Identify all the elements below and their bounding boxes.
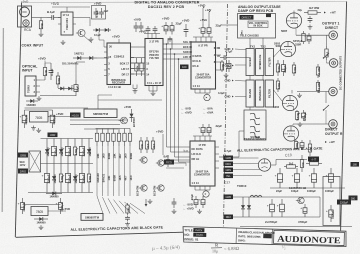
tube V2b bbox=[283, 126, 298, 141]
wire plate to jack3 bbox=[291, 90, 293, 93]
output transformer pictorial box bbox=[244, 110, 266, 140]
lt label DR2 bbox=[224, 215, 234, 220]
U4 top pin stubs bbox=[195, 37, 197, 42]
ground ch2 cathode bbox=[299, 122, 301, 124]
ground right cluster bbox=[90, 37, 92, 39]
psu component 1N4860 upper bbox=[88, 139, 90, 150]
wire plate to jack1 bbox=[293, 11, 295, 13]
bias resistor 10K cluster bbox=[140, 137, 142, 141]
ladder resistor 680R bbox=[107, 129, 109, 134]
ladder wire down bbox=[129, 146, 131, 196]
dark label H100 bbox=[70, 113, 81, 118]
I/V resistor left bbox=[221, 60, 223, 62]
wire vol box down to TX1 bbox=[249, 38, 251, 49]
lt cap 4700uF b bbox=[281, 199, 283, 204]
wires secondary to rectifier bbox=[233, 157, 259, 159]
supply caps above U5 bbox=[202, 124, 204, 127]
psu component 470R lower bbox=[60, 164, 62, 175]
ground under U1 bbox=[62, 40, 64, 42]
ground lower bbox=[127, 222, 129, 224]
anode resistor 2k2 WW ch1 bbox=[317, 64, 319, 67]
decoupling caps above U3 bbox=[147, 26, 149, 29]
transformer secondary label GRB ht bbox=[224, 156, 234, 161]
psu component 470R upper bbox=[74, 139, 76, 148]
ladder resistor 680R bbox=[129, 129, 131, 134]
pullup resistor 47K a bbox=[136, 58, 138, 63]
ladder wire down bbox=[118, 146, 120, 196]
U1 pin stubs left bbox=[58, 17, 61, 19]
grid resistor column b bbox=[293, 62, 295, 65]
lt bottom rail bbox=[240, 226, 352, 228]
caps below U5 bbox=[195, 196, 197, 199]
mains label GRB bbox=[18, 153, 28, 158]
ground top of PSU bbox=[33, 126, 35, 128]
lt cap 4700uF a bbox=[271, 199, 273, 204]
dash-dot section divider bbox=[224, 4, 228, 227]
ground of 75R bbox=[40, 32, 42, 34]
U5 bottom stubs bbox=[194, 186, 196, 190]
choke L1 bbox=[250, 195, 262, 197]
ladder collect diagonals bbox=[97, 196, 103, 214]
filter cap left bbox=[228, 60, 230, 63]
psu component 2200μF lower bbox=[46, 164, 48, 174]
diode 1N4860 mid bbox=[26, 100, 30, 102]
rail above regulators bbox=[25, 107, 89, 109]
down arrow mid bbox=[145, 199, 147, 204]
wire TX to tube grid L bbox=[274, 49, 281, 57]
wire TX pair vertical join bbox=[249, 76, 251, 81]
RCA jack output 3 bbox=[329, 87, 338, 96]
dark label DIRECT bbox=[240, 15, 254, 20]
ladder wire down bbox=[102, 146, 104, 196]
dark label 2200uF bbox=[337, 200, 351, 205]
psu component 470R lower bbox=[88, 164, 90, 175]
ground IV left bbox=[225, 73, 227, 75]
ladder resistor 4K7 bbox=[118, 129, 120, 134]
transistor Q3 BC550 bbox=[141, 157, 147, 163]
decoupling cap right cluster bbox=[95, 8, 97, 12]
cathode resistor 330R V1a bbox=[303, 31, 305, 34]
filter cap 1000uF ht b bbox=[330, 168, 332, 174]
U3 bottom stubs and ground bbox=[148, 86, 150, 92]
lt wire b bbox=[233, 216, 320, 218]
psu component 2200μF upper bbox=[67, 139, 69, 147]
dark label 180R edge bbox=[351, 162, 360, 167]
cap 2200uF psu out a bbox=[22, 198, 24, 203]
small dark mark in vol box bbox=[266, 14, 271, 18]
regulator box right bbox=[323, 177, 340, 226]
vertical join right psu bbox=[319, 197, 321, 217]
tube V1b bbox=[280, 41, 295, 56]
U1 pin stubs right bbox=[73, 17, 76, 19]
tube V1a 5687 bbox=[286, 13, 301, 28]
frame right border bbox=[341, 2, 347, 231]
U2 bottom pin stubs to ground bbox=[132, 85, 134, 89]
title block divider b bbox=[271, 230, 273, 245]
U2 top supply stub bbox=[118, 39, 120, 43]
wire mid band a bbox=[98, 99, 162, 101]
bus drop wires to lower DAC bbox=[166, 44, 168, 147]
resistor 75R input termination bbox=[40, 18, 42, 21]
wire GND arrows to boxes bbox=[235, 48, 246, 51]
ladder resistor 1K0 bbox=[124, 129, 126, 134]
dark label 100R psu bbox=[48, 133, 58, 138]
wire U1 out to CS8412 bbox=[76, 17, 90, 19]
capacitor 1uF right cluster bbox=[101, 8, 103, 12]
lower transistor Q7 BC547 bbox=[158, 185, 164, 191]
box around input caps cluster bbox=[92, 6, 106, 20]
cathode cap V2b bbox=[301, 140, 303, 143]
U2 left pin stubs bbox=[104, 46, 107, 48]
cap and ground right of cluster bbox=[173, 198, 175, 202]
filter cap 100uF ht bbox=[296, 168, 298, 174]
cap inside reg box bbox=[330, 205, 332, 210]
bus junction dots bbox=[166, 43, 168, 45]
transformer T1 bbox=[29, 151, 41, 172]
frame top border bbox=[22, 2, 347, 3]
ladder wire down bbox=[113, 146, 115, 196]
diode LED red bbox=[167, 155, 169, 159]
capacitor 0.1uF optical bbox=[50, 63, 52, 71]
selector pot symbol bbox=[241, 30, 243, 36]
wire V2b plate to jack4 bbox=[292, 124, 294, 125]
wire DAC2 to analog bbox=[226, 156, 239, 158]
wire U6 up to U2 bbox=[97, 95, 99, 109]
lt label GRB bbox=[224, 195, 234, 200]
diode 1N4148 a bbox=[93, 29, 96, 31]
ground below U5 bbox=[199, 209, 201, 211]
filter cap 22uF ht bbox=[279, 168, 281, 174]
ground V1b cathode bbox=[299, 93, 301, 95]
cathode cap SP47uF V1a bbox=[308, 33, 310, 36]
wire diodes to receiver bbox=[97, 57, 109, 59]
RCA jack output 4 bbox=[329, 120, 338, 129]
arrow +HT a bbox=[324, 12, 326, 14]
feed resistor below note b bbox=[301, 155, 303, 160]
cathode resistor 330R V2b bbox=[295, 140, 297, 142]
dark stamp in DWG cell bbox=[263, 234, 272, 239]
dark label +HT bbox=[308, 157, 319, 162]
anode resistor DC2 WW ch2 bbox=[317, 80, 319, 83]
IC U6 SM5807TM reclock bbox=[84, 109, 117, 118]
wire switch to jack4 bbox=[325, 110, 327, 124]
output coupling cap 4.7uF right bbox=[219, 156, 224, 158]
psu rail top bbox=[41, 138, 94, 140]
cap 2200uF psu out b bbox=[60, 198, 62, 203]
MSB trim pot U5 bbox=[203, 191, 209, 197]
ground optical bbox=[38, 96, 40, 98]
wire Q9 emitter down bbox=[84, 36, 92, 43]
bias resistor 2K0 cluster bbox=[152, 137, 154, 141]
wires regulator bbox=[25, 109, 53, 111]
resistor 100R optical bbox=[57, 72, 59, 76]
diode 1N5711 b optical bbox=[66, 88, 68, 90]
ladder resistor 10K bbox=[96, 129, 98, 134]
transformer secondary label YEL ht bbox=[224, 174, 234, 179]
U4 bottom stubs bbox=[194, 89, 196, 93]
IC U4 PCM63P-K DAC left channel bbox=[191, 42, 216, 89]
psu component 2200μF lower bbox=[81, 164, 83, 174]
resistor 220R ht bbox=[306, 163, 310, 165]
ground bottom psu bbox=[40, 225, 42, 227]
arrow +HT b bbox=[325, 141, 327, 143]
cap 2200uF reg out bbox=[52, 110, 54, 115]
ladder top rail bbox=[96, 128, 131, 130]
psu rail low bbox=[28, 192, 93, 194]
cathode cap V1a bbox=[309, 16, 311, 19]
cathode resistor 3700R ch2 bbox=[296, 110, 298, 112]
ladder resistor 10K bbox=[113, 129, 115, 134]
ground U2 bbox=[134, 89, 136, 91]
dark label number bbox=[193, 233, 206, 237]
title block outline bbox=[183, 227, 346, 247]
electrolytic caps 22uF above bus bbox=[165, 22, 167, 26]
cluster output wires to DAC2 bbox=[166, 159, 190, 161]
diode 1N4860 bottom left bbox=[46, 193, 52, 195]
transformer secondary label DRO ht bbox=[224, 162, 234, 167]
U5 right pin stubs bbox=[215, 146, 219, 148]
regulator 7805 bottom bbox=[31, 207, 48, 216]
tube V2a bbox=[282, 95, 297, 110]
interstage box SILVER R bbox=[246, 80, 254, 107]
wires below U6 bbox=[70, 119, 128, 121]
wire to switch ch2 bbox=[325, 92, 327, 104]
frame left border bbox=[15, 3, 21, 238]
rectifier tube V3 bbox=[258, 159, 270, 171]
switch SW1 bbox=[324, 53, 330, 58]
psu component 1N4860 upper bbox=[60, 139, 62, 150]
ladder wire down bbox=[107, 146, 109, 196]
wire rectifier to +HT bbox=[271, 164, 276, 166]
cap lower bbox=[127, 216, 129, 218]
frame bottom border bbox=[16, 232, 183, 237]
LED dark label RED bbox=[164, 160, 174, 165]
ground between U3 and U4 bbox=[167, 39, 169, 44]
wires bottom psu bbox=[23, 204, 61, 206]
transistor Q4 BC550 bbox=[158, 160, 164, 166]
coax input RCA jack J1 bbox=[18, 6, 32, 27]
anode resistor 4k7 WW bbox=[304, 12, 308, 14]
psu component 2200μF lower bbox=[67, 164, 69, 174]
capacitor C1 0.1uF bbox=[47, 17, 52, 19]
wire J1 to C1 bbox=[32, 17, 48, 19]
pullup resistor 47K b bbox=[141, 58, 143, 63]
scan page edge shadow bbox=[2, 28, 3, 212]
interstage box FILTER R bbox=[265, 80, 273, 107]
diode 1N4148 b bbox=[102, 29, 105, 31]
diode bridge lt a bbox=[242, 197, 244, 205]
ladder wire down bbox=[124, 146, 126, 196]
switch SW2 bbox=[324, 105, 330, 110]
interstage box INTERFACE L bbox=[256, 49, 264, 76]
dark label DAC4 bbox=[193, 228, 204, 232]
diode 1N5711 a optical bbox=[58, 88, 60, 90]
ladder resistor 1K5 bbox=[102, 129, 104, 134]
resistor 10R lower bbox=[127, 203, 129, 205]
supply caps above U4 bbox=[202, 24, 204, 28]
ground V1a bbox=[309, 25, 311, 27]
diode D at U6 right bbox=[131, 109, 133, 114]
wire switch to jack2 bbox=[326, 60, 328, 63]
transistor Q9 clock buffer bbox=[78, 29, 85, 36]
U5 top pin stubs bbox=[194, 136, 196, 141]
psu component 1N4860 lower bbox=[74, 164, 76, 177]
feed resistor below note a bbox=[309, 140, 311, 144]
resistor 47R optical bbox=[44, 63, 46, 68]
wire to switch bbox=[326, 35, 328, 46]
grid resistor column a bbox=[277, 60, 279, 64]
cap 2200uF reg in bbox=[24, 110, 26, 115]
dark value label 100R bbox=[180, 65, 189, 70]
U4 right pin stubs bbox=[216, 47, 221, 49]
pass transistor BC546 bbox=[298, 197, 304, 203]
ladder wire down bbox=[96, 146, 98, 196]
ground cluster bbox=[149, 199, 151, 201]
IC U1 74HCU04 inverter bbox=[61, 12, 73, 35]
vol control inner box bbox=[248, 21, 268, 28]
filter cap 1000uF ht bbox=[313, 168, 315, 174]
psu component 2200μF upper bbox=[53, 139, 55, 147]
U2 right pin stubs bbox=[131, 57, 135, 59]
transformer secondary label GRN ht bbox=[224, 168, 234, 173]
interstage box SILVER L bbox=[246, 49, 254, 76]
+5VD rail to U1 bbox=[66, 7, 68, 12]
ht ground rail bbox=[270, 187, 345, 189]
volume control box bbox=[238, 14, 276, 39]
data bus U3 to DACs bbox=[163, 43, 191, 45]
decoupling caps right of U2 top bbox=[135, 22, 137, 26]
output coupling cap 4.7uF left bbox=[220, 54, 221, 56]
wire C1 to U1 bbox=[59, 17, 62, 19]
psu component 2200μF upper bbox=[81, 139, 83, 147]
cathode cap ch2 bbox=[303, 110, 305, 113]
optical receiver TORX173 bbox=[25, 76, 36, 96]
capacitor 10uF optical bbox=[75, 80, 77, 85]
transistor Q8 below U6 bbox=[121, 117, 128, 124]
diode D1 1N5711 bbox=[73, 57, 77, 59]
MSB trim pot U4 bbox=[204, 94, 210, 100]
diode bridge lt b bbox=[248, 197, 250, 205]
IC U7 SM5807TM lower bbox=[81, 214, 103, 221]
wire optical to mux bbox=[40, 79, 45, 81]
bias resistor 1K0 cluster bbox=[146, 137, 148, 141]
diode D2 1N5711 bbox=[85, 57, 89, 59]
lower transistor Q6 BC547 bbox=[141, 185, 147, 191]
regulator 7805 digital bbox=[30, 112, 49, 123]
TORX pin stubs bbox=[36, 79, 40, 81]
IC U2 CS8412 interface receiver bbox=[107, 43, 131, 85]
resistor damp 10K bbox=[326, 46, 328, 49]
RCA jack output 1 bbox=[329, 31, 338, 40]
lt wire a bbox=[233, 196, 320, 198]
interstage box FILTER L bbox=[265, 49, 273, 76]
interstage box INTERFACE R bbox=[256, 80, 264, 107]
psu component 1N4860 lower bbox=[53, 164, 55, 177]
U3 top pin stubs to +5VD bbox=[147, 34, 149, 39]
IC U5 PCM63P-K DAC right channel bbox=[190, 141, 215, 186]
AUDIONOTE logo box bbox=[274, 230, 345, 245]
diode 1N4860 under regulator bbox=[34, 218, 39, 220]
optical ground rail bbox=[40, 95, 76, 97]
mains label DRO bbox=[18, 169, 28, 174]
resistor 2k2 ht bbox=[284, 166, 287, 168]
psu rail mid bbox=[41, 163, 94, 165]
grid resistor column a2 bbox=[277, 78, 279, 81]
ground regulator bbox=[38, 128, 40, 130]
wire TX ch2 down to pictorial bbox=[249, 107, 251, 110]
lt cap 4700uF c bbox=[304, 204, 306, 208]
title block divider a bbox=[235, 229, 237, 244]
IC U3 DF1700 digital filter bbox=[145, 39, 163, 86]
dark label 280 edge bbox=[349, 196, 358, 201]
wires U2 to U3 bbox=[131, 57, 146, 59]
wire across divider to vol box bbox=[222, 24, 238, 26]
wire DAC1 out to analog section bbox=[230, 57, 250, 59]
psu component 1N4860 upper bbox=[46, 139, 48, 150]
grid cap column b2 bbox=[283, 60, 285, 65]
wire TX ch2 to tube grid R bbox=[274, 90, 282, 101]
RCA jack output 2 bbox=[329, 59, 338, 68]
